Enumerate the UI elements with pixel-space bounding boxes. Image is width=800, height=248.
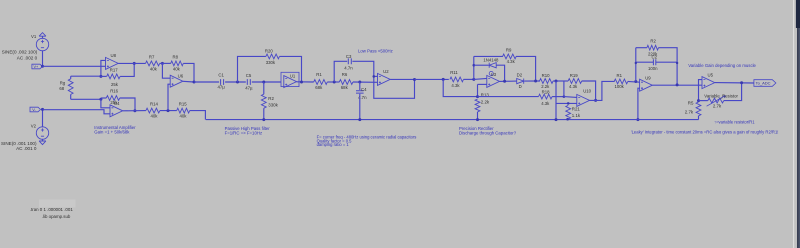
wire R15 to ground rail	[190, 111, 206, 120]
resistor R18	[539, 94, 553, 99]
wire to R2 220k	[636, 47, 647, 49]
svg-text:40k: 40k	[180, 113, 188, 118]
window corner dark block	[796, 0, 800, 28]
resistor R11	[450, 77, 464, 82]
svg-text:1N4148: 1N4148	[483, 58, 499, 63]
diode D1 1N4148	[489, 63, 496, 68]
wire U3 noninverting to reference rail	[477, 84, 479, 96]
node V+ port label	[32, 64, 43, 69]
wire to R16	[101, 97, 106, 99]
wire V1 bottom to node V+	[42, 51, 44, 67]
wire feedback left rail	[635, 48, 637, 82]
svg-text:V+: V+	[34, 65, 40, 69]
svg-text:Gain =1 + 50k/68k: Gain =1 + 50k/68k	[94, 130, 130, 135]
junction D1 tap	[473, 64, 476, 67]
wire reference rail to R18	[478, 96, 539, 98]
wire Rg bottom lead	[70, 94, 72, 99]
wire node V- to V2 top	[42, 109, 44, 127]
junction C2 right	[676, 62, 678, 64]
svg-text:C1: C1	[218, 73, 224, 78]
svg-text:2.7k: 2.7k	[685, 109, 694, 114]
svg-text:R15: R15	[179, 101, 187, 106]
svg-text:2.7k: 2.7k	[713, 104, 722, 109]
svg-text:R17: R17	[110, 67, 118, 72]
wire R5 to ground rail	[698, 116, 700, 120]
svg-text:SINE(0 .002 100): SINE(0 .002 100)	[2, 50, 38, 55]
svg-text:25k: 25k	[111, 82, 119, 87]
resistor R6 68k	[339, 80, 353, 85]
wire inverting node rail up	[473, 56, 475, 79]
svg-text:U2: U2	[383, 69, 389, 74]
wire R1 to R6	[327, 81, 339, 83]
junction C3 feedback node	[373, 75, 376, 78]
node V- port label	[30, 107, 41, 112]
capacitor C4	[356, 91, 364, 93]
junction R13 node	[476, 95, 479, 98]
junction reference tap	[442, 78, 445, 81]
junction U9 output node	[676, 83, 679, 86]
svg-text:U3: U3	[491, 72, 497, 77]
resistor R2 330k shunt	[261, 94, 266, 108]
wire R10 to R19	[553, 80, 568, 82]
svg-text:R19: R19	[570, 73, 578, 78]
wire node down to C4	[359, 82, 361, 90]
svg-text:R1: R1	[316, 72, 322, 77]
svg-text:F=1/RC => F=10Hz: F=1/RC => F=10Hz	[225, 130, 263, 135]
wire U2 output to R11	[415, 78, 449, 80]
svg-text:.tran 0 1 .000001 .001: .tran 0 1 .000001 .001	[30, 207, 74, 212]
svg-text:R21: R21	[572, 107, 581, 112]
wire V+ to U8 noninverting input	[43, 65, 106, 67]
svg-text:C3: C3	[346, 54, 352, 59]
junction R5 variable resistor node	[697, 99, 700, 102]
wire reference rail down	[443, 79, 477, 96]
variable resistor	[708, 98, 724, 103]
op-amp U3	[487, 75, 500, 87]
wire R6 to U2 noninverting input	[353, 81, 378, 83]
wire R13 to ground rail	[477, 112, 479, 120]
wire U5 inverting input rail	[699, 80, 703, 101]
window border outer sliver	[799, 0, 800, 248]
wire U2 inverting input stub	[374, 75, 378, 77]
variable resistor wiper arrow	[707, 96, 726, 107]
junction R21 tap	[567, 102, 570, 105]
wire C2 left lead	[636, 61, 653, 63]
wire U4 inverting input rail	[101, 99, 110, 108]
resistor R19	[568, 79, 582, 84]
svg-text:Discharge through Capacitor?: Discharge through Capacitor?	[459, 131, 517, 136]
junction U1 output node	[300, 81, 303, 84]
junction C2 left	[635, 62, 637, 64]
wire V- to U4 noninverting input	[43, 110, 111, 114]
resistor R10	[540, 79, 554, 84]
wire node down to ground rail	[555, 81, 557, 120]
wire to variable resistor	[699, 100, 708, 102]
wire V1 top to ground	[42, 36, 44, 38]
window scrollbar edge line	[793, 0, 795, 248]
op-amp U10	[577, 94, 590, 106]
svg-text:D2: D2	[517, 72, 523, 77]
wire Rg top to U8 feedback node	[71, 75, 101, 77]
junction U9 inverting node	[634, 80, 637, 83]
svg-text:Low Pass <500Hz: Low Pass <500Hz	[358, 48, 393, 53]
resistor R13	[475, 99, 480, 112]
svg-text:'Leaky' Integrator - time cons: 'Leaky' Integrator - time constant 20ms …	[631, 130, 779, 135]
resistor R15	[177, 108, 190, 113]
svg-text:68k: 68k	[341, 85, 349, 90]
svg-text:100k: 100k	[615, 84, 625, 89]
wire rail to R9	[474, 55, 503, 57]
op-amp U3 top circle	[489, 71, 493, 75]
junction R10 R19 node	[555, 80, 558, 83]
svg-text:D: D	[519, 84, 522, 89]
resistor R20	[266, 54, 280, 59]
svg-text:U5: U5	[708, 72, 714, 77]
svg-text:R18: R18	[542, 89, 550, 94]
junction R2 shunt node	[262, 81, 265, 84]
junction R7 R8 node	[161, 62, 164, 65]
svg-text:V1: V1	[31, 34, 37, 39]
node To_ADC port label	[754, 80, 776, 87]
svg-text:47µ: 47µ	[245, 85, 253, 90]
junction U10 output node	[594, 99, 597, 102]
wire R19 left drop	[563, 81, 565, 97]
capacitor C2	[653, 59, 655, 65]
junction U3 inverting node	[472, 78, 475, 81]
svg-text:68: 68	[59, 86, 64, 91]
junction U4 output node	[133, 109, 136, 112]
svg-text:68k: 68k	[315, 85, 323, 90]
wire to U10 noninverting input	[556, 102, 577, 104]
wire R20 right to U1 output node	[280, 56, 302, 82]
resistor R7	[146, 61, 160, 66]
wire U4 output to R14	[123, 110, 146, 112]
svg-text:↑=variable resistor/R1: ↑=variable resistor/R1	[714, 119, 755, 124]
voltage source V2	[36, 127, 48, 139]
op-amp U4	[110, 105, 123, 117]
wire V2 bottom to ground	[42, 139, 44, 141]
svg-text:U10: U10	[583, 88, 591, 93]
op-amp U5	[702, 77, 715, 89]
junction U10 inverting node	[563, 95, 566, 98]
voltage source V1	[36, 38, 48, 50]
wire U3 output to D2	[500, 80, 517, 82]
wire into U10 inverting input	[564, 96, 577, 99]
junction rectifier output node	[534, 80, 537, 83]
svg-text:C2: C2	[652, 54, 658, 59]
junction U4 feedback node	[99, 98, 102, 101]
wire C3 to U2 feedback under-route	[352, 61, 414, 98]
wire R1 to U9 inverting input	[628, 80, 640, 83]
svg-text:25k: 25k	[110, 100, 118, 105]
resistor R1 68k	[314, 80, 328, 85]
wire R2 to ground rail	[263, 108, 265, 119]
svg-text:Variable_Resistor: Variable_Resistor	[704, 94, 738, 99]
resistor R21	[566, 105, 571, 119]
wire R8 to U6 output node	[183, 63, 194, 82]
wire to R17	[101, 75, 107, 77]
wire into U3 inverting input	[474, 78, 487, 79]
junction C4 node	[358, 81, 361, 84]
svg-text:R2: R2	[268, 96, 274, 101]
junction U8 feedback node	[99, 75, 102, 78]
wire C5 to U1 input	[252, 81, 281, 83]
ground above V1	[39, 33, 46, 37]
junction node V-	[41, 108, 44, 111]
wire Rg bottom to U4 feedback node	[71, 98, 101, 100]
junction ground rail C4	[358, 118, 361, 121]
wire U8 output to R7	[118, 62, 145, 64]
wire D1 to U3 output	[496, 65, 504, 81]
svg-text:47µ: 47µ	[218, 85, 226, 90]
svg-text:R9: R9	[506, 48, 512, 53]
svg-text:4.3k: 4.3k	[451, 83, 460, 88]
resistor R5	[696, 102, 701, 116]
junction ground rail R21	[566, 118, 569, 121]
op-amp U1 body box	[281, 72, 299, 86]
junction U8 output node	[133, 62, 136, 65]
svg-text:R5: R5	[688, 101, 694, 106]
svg-text:R14: R14	[150, 101, 158, 106]
svg-text:U1: U1	[290, 73, 296, 78]
wire U9 output to U5	[652, 84, 702, 86]
svg-text:R7: R7	[149, 55, 155, 60]
wire U8 inverting input rail	[101, 60, 106, 76]
svg-text:V2: V2	[31, 123, 37, 128]
wire Rg top lead	[70, 76, 72, 79]
svg-text:C5: C5	[246, 73, 252, 78]
svg-text:40k: 40k	[151, 113, 159, 118]
wire R18 to U10 inverting node	[552, 96, 564, 98]
svg-text:Variable Gain depending on mus: Variable Gain depending on muscle	[688, 63, 756, 68]
svg-text:R20: R20	[265, 49, 273, 54]
junction ground rail R13	[476, 118, 479, 121]
junction U5 output node	[740, 81, 743, 84]
wire R21 to ground rail	[567, 118, 569, 121]
svg-text:4.3k: 4.3k	[507, 59, 516, 64]
wire to U6 inverting input	[162, 63, 170, 78]
wire to U6 noninverting input	[168, 84, 170, 110]
svg-text:40k: 40k	[150, 66, 158, 71]
wire R11 to U3 inverting node	[464, 78, 474, 80]
svg-text:R6: R6	[342, 72, 348, 77]
resistor R14	[146, 108, 160, 113]
junction ground rail divider	[555, 118, 558, 121]
wire U10 output up to R1 100k	[590, 81, 615, 100]
resistor R17	[107, 74, 120, 79]
svg-text:R10: R10	[542, 73, 550, 78]
svg-text:Rg: Rg	[60, 80, 66, 85]
junction R1 R6 C3 node	[333, 81, 336, 84]
wire U5 output to To_ADC	[715, 82, 754, 84]
svg-text:U6: U6	[178, 73, 184, 78]
svg-text:4.3k: 4.3k	[541, 101, 550, 106]
op-amp U1 triangle	[284, 76, 297, 88]
wire R9 to rectifier output node	[516, 56, 536, 81]
wire U1 output to R1	[297, 81, 314, 83]
svg-text:U8: U8	[111, 53, 117, 58]
op-amp U6	[170, 75, 183, 87]
ground below V2	[39, 141, 46, 145]
svg-text:To_ADC: To_ADC	[756, 80, 771, 85]
svg-text:R2: R2	[650, 38, 656, 43]
wire R16 to U4 output	[120, 98, 135, 111]
wire C1 to C5	[225, 81, 246, 83]
svg-text:SINE(0 .001 100): SINE(0 .001 100)	[1, 141, 37, 146]
junction node V+	[41, 65, 44, 68]
wire U9 noninverting input to ground rail	[638, 88, 640, 119]
svg-text:R11: R11	[450, 70, 458, 75]
svg-text:330k: 330k	[266, 60, 276, 65]
svg-text:AC .002 0: AC .002 0	[17, 55, 38, 60]
wire U6 output	[183, 80, 194, 83]
wire R17 to U8 output	[120, 63, 134, 76]
wire U3 noninverting input stub	[478, 83, 487, 85]
wire node to R2	[263, 82, 265, 94]
resistor Rg	[68, 79, 73, 95]
svg-text:330k: 330k	[268, 102, 278, 107]
svg-text:1.1k: 1.1k	[572, 113, 581, 118]
svg-text:AC .001 0: AC .001 0	[16, 146, 37, 151]
resistor R9	[503, 54, 517, 59]
wire U6 output to C1	[194, 81, 219, 83]
svg-text:100n: 100n	[648, 66, 658, 71]
resistor R8	[171, 61, 184, 66]
faint highlight behind .tran directive	[39, 200, 76, 208]
capacitor C1	[221, 79, 224, 85]
svg-text:damping ratio = 1: damping ratio = 1	[317, 142, 350, 147]
svg-text:2.2k: 2.2k	[481, 99, 490, 104]
junction U3 output node	[503, 80, 506, 83]
resistor R2 220k	[647, 45, 659, 50]
resistor R1 100k	[614, 79, 628, 84]
op-amp U2	[378, 73, 391, 85]
svg-text:R8: R8	[173, 55, 179, 60]
wire tap up to R20 left	[238, 56, 266, 82]
wire variable resistor to U5 output	[724, 83, 742, 101]
capacitor C5	[247, 79, 250, 85]
resistor R16	[106, 96, 119, 101]
svg-text:40k: 40k	[173, 66, 181, 71]
svg-text:U9: U9	[645, 76, 651, 81]
wire D2 to R10	[524, 80, 540, 82]
svg-text:C4: C4	[361, 87, 367, 92]
junction R14 R15 node	[167, 109, 170, 112]
op-amp U8	[106, 57, 119, 69]
svg-text:4.3k: 4.3k	[569, 84, 578, 89]
wire R14 to R15	[160, 110, 177, 112]
junction U6 output node	[193, 81, 196, 84]
svg-text:.lib opamp.sub: .lib opamp.sub	[42, 214, 71, 219]
diode D2	[517, 79, 524, 84]
junction ground rail U9	[636, 118, 639, 121]
capacitor C3	[348, 58, 351, 64]
wire R2 to U9 output	[659, 48, 678, 85]
wire to D1	[474, 64, 489, 66]
wire R19 to U10 output	[582, 81, 596, 100]
window border dark line full height	[797, 0, 799, 248]
svg-text:R1: R1	[617, 73, 623, 78]
svg-text:R16: R16	[110, 89, 118, 94]
junction ground rail R2	[262, 118, 265, 121]
wire R7 to R8	[160, 62, 171, 64]
wire ground rail	[206, 119, 699, 121]
junction C1 C5 R20 tap	[236, 81, 239, 84]
wire node up to C3	[334, 61, 347, 82]
wire U2 output	[390, 78, 414, 80]
wire C2 right lead	[656, 61, 677, 63]
svg-text:4.7n: 4.7n	[344, 65, 353, 70]
wire C4 to ground rail	[359, 94, 361, 120]
junction U2 output node	[413, 78, 416, 81]
op-amp U9	[640, 79, 653, 91]
